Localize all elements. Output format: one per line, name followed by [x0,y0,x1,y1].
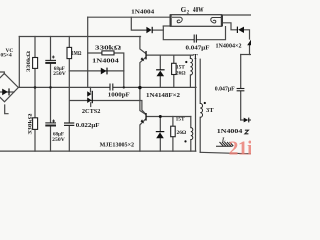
diode 1N4148 upper [156,69,165,76]
bridge diode lead [1,91,15,93]
svg-text:1N4004: 1N4004 [217,129,243,135]
junction dot divider mid [34,86,37,89]
wire lamp pin2 left [163,25,169,27]
svg-text:1N4004: 1N4004 [131,9,154,16]
svg-text:L: L [221,137,226,143]
wire lamp top right [223,14,251,16]
svg-text:1N4004×2: 1N4004×2 [216,43,242,49]
lamp filament left [172,17,182,23]
diode 1N4004 bottom right [244,118,250,123]
wire trigger [70,101,145,114]
svg-text:T: T [193,52,198,61]
svg-text:0.047μF: 0.047μF [186,45,211,51]
wire divider vertical lower [34,129,36,151]
svg-text:1N4004: 1N4004 [92,57,119,64]
wire transformer vertical B [199,59,201,103]
ground symbol [216,142,233,146]
capacitor 1000p [110,84,113,91]
wire q1 base [147,54,193,56]
wire bottom right horizontal [200,152,251,154]
transistor q1 base bar [145,51,146,59]
wire right top corner [241,54,251,56]
wire upper diode vertical [159,55,161,70]
wire right diode to edge [244,30,250,39]
diode 1N4148 lower [156,131,165,138]
diode 1N4004 mid horizontal [101,68,108,75]
diode small mark bottom right [245,130,249,134]
svg-text:330kΩ: 330kΩ [26,50,32,72]
wire 1M vertical [68,37,70,48]
capacitor 68u lower [45,123,56,126]
wire q2 collector [140,87,146,114]
wire mid branch vertical [87,17,89,87]
svg-text:1MΩ: 1MΩ [72,50,82,57]
winding 3T [200,103,202,117]
wire q2 emitter vertical [140,119,146,151]
svg-text:3T: 3T [206,107,215,114]
junction dot half-bridge midpoint [138,86,141,89]
wire under lamp right [196,27,225,40]
svg-text:0.022μF: 0.022μF [76,123,100,129]
bridge diamond [0,74,18,102]
junction dot q2 base network [159,115,162,118]
wire q2 base [147,116,191,118]
diode right edge vertical [247,40,251,46]
transistor q2 emitter arrow [141,119,145,123]
wire right rail [240,55,242,89]
diode 1N4004 top mid [146,27,152,33]
svg-text:40W: 40W [193,6,204,14]
wire midpoint rail right segment [113,86,196,88]
svg-text:26Ω: 26Ω [177,130,187,136]
winding upper [190,58,192,75]
resistor 330k lower left [33,118,38,130]
wire lower winding vertical [190,117,192,128]
wire bridge bottom lead [5,105,8,114]
svg-text:1N4148F×2: 1N4148F×2 [146,93,180,99]
diac stub [90,87,92,92]
svg-text:05×4: 05×4 [1,53,12,59]
resistor 330k upper left [33,58,38,69]
wire diode mid top [152,29,163,31]
winding lower [191,128,193,140]
wire upper 26ohm vertical [173,55,175,63]
resistor 26ohm upper [172,63,177,74]
wire diode branch [69,70,124,72]
resistor 26ohm lower [171,126,176,137]
wire lamp pin right [223,23,237,30]
wire divider vertical upper [34,37,36,58]
wire bottom right diode wire [241,119,244,121]
wire top rail [88,16,171,18]
diac 2CTS2 [87,91,93,103]
plus lower [52,120,55,123]
junction dot cap mid [49,86,52,89]
wire DC+ rail [19,36,140,38]
wire lower 26ohm vertical [172,117,174,127]
wire lower diode vertical [159,117,161,132]
lamp filament right [211,18,221,24]
svg-text:0.047μF: 0.047μF [215,86,235,92]
polarity dot 3T [204,102,206,104]
transistor q1 emitter arrow [141,57,145,61]
svg-text:330kΩ: 330kΩ [27,113,33,135]
svg-text:330kΩ: 330kΩ [95,44,121,51]
svg-text:26Ω: 26Ω [176,70,186,76]
svg-text:15T: 15T [176,117,185,123]
wire transformer vertical A [195,59,197,151]
svg-text:1000pF: 1000pF [108,92,131,98]
lamp G2 box [170,15,222,27]
wire q1 collector [140,37,146,54]
junction dot snubber branch [123,86,125,88]
capacitor 0.047u under lamp [194,35,196,43]
wire top diode feed [131,17,146,30]
wire under lamp left [163,26,194,40]
diode 1N4004x2 right horizontal [237,27,244,33]
wire divider vertical mid [34,68,36,117]
wire 330k branch [88,53,124,87]
capacitor 0.047u right [237,89,245,91]
plus upper [52,56,55,59]
transistor q2 base bar [145,113,146,121]
wire midpoint rail left segment [19,86,110,88]
capacitor 0.022u [64,123,74,125]
wire cap vertical segments [50,37,52,61]
svg-text:250V: 250V [52,137,65,143]
svg-text:21ic: 21ic [229,138,251,157]
svg-text:MJE13005×2: MJE13005×2 [100,142,135,148]
wire q1 emitter vertical [140,58,146,88]
svg-text:2CTS2: 2CTS2 [82,109,101,115]
wire bottom rail [0,150,196,152]
resistor 1M [67,47,72,58]
svg-text:250V: 250V [53,71,66,77]
polarity dot upper winding [185,61,187,63]
capacitor 68u upper [45,60,56,63]
wire left edge vertical [18,37,20,88]
diode bridge internal [2,88,9,95]
resistor 330k mid horizontal [102,51,114,55]
wire bridge top lead [0,72,4,74]
wire upper winding vertical [189,55,191,58]
polarity dot lower winding [184,140,186,142]
